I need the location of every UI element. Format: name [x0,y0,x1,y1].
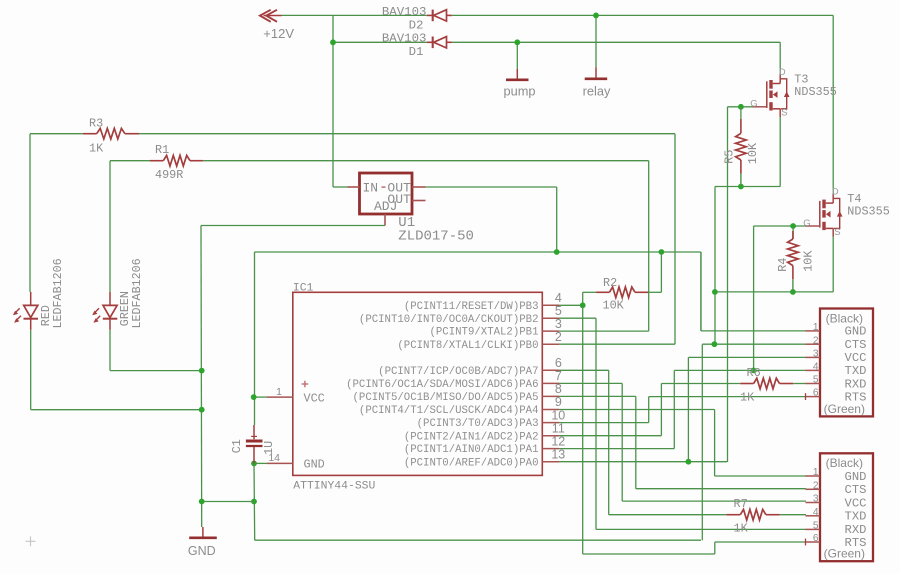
LED RED LEDFAB1206 [13,258,65,330]
svg-text:ADJ: ADJ [374,199,397,214]
wire T4 gate column down [753,226,755,370]
wire +12V branch down to U1 IN [332,15,334,187]
net symbol pump [503,69,535,98]
svg-text:6: 6 [813,388,819,399]
wire PA2 column up to R6 row [660,384,662,436]
node GND column / LED green row [199,368,205,374]
svg-text:6: 6 [813,533,819,544]
svg-text:IN: IN [363,180,379,195]
node PA0 row / conn1 VCC column [686,459,692,465]
wire PA1 column up to TXD1 row [673,370,675,448]
wire pin3 column (R1 net) [648,161,650,331]
wire VCC rail corner down [700,252,702,331]
node VCC column / pin1 [251,394,257,400]
wire D1 row left [333,41,427,43]
svg-text:IC1: IC1 [293,283,314,295]
svg-text:5: 5 [813,521,819,532]
connector J1 FTDI (top) [806,309,874,417]
svg-text:6: 6 [555,356,562,370]
wire GND column upper [200,226,203,528]
svg-text:11: 11 [552,421,565,435]
wire pump branch [516,42,518,69]
svg-text:1K: 1K [89,142,104,156]
wire IC pin PB3 row [559,304,583,306]
wire PB3 reset column [582,305,584,554]
resistor R4 10K [776,226,815,292]
svg-text:NDS355: NDS355 [794,85,836,99]
svg-text:R1: R1 [155,143,169,157]
wire R7 feed row [609,514,727,516]
wire T4 drain vertical [832,15,834,193]
wire IC pin PA4 row [559,409,715,411]
svg-text:TXD: TXD [845,364,867,378]
node GND link row right [251,499,257,505]
wire IC pin PA3 row [559,422,649,424]
svg-text:8: 8 [555,382,562,396]
node PB3 / R2 / reset net [580,302,586,308]
wire R2 right link [648,291,661,293]
resistor R5 10K [722,107,760,187]
svg-text:1K: 1K [734,521,749,535]
wire T3 gate column down [727,107,729,462]
wire PA6 column [621,383,623,501]
wire C1 bottom to rail corner [253,463,256,540]
wire PA4 column down [714,410,716,477]
svg-text:CTS: CTS [845,338,867,352]
connector J2 FTDI (bottom) [806,453,874,561]
svg-text:G: G [750,99,757,110]
svg-text:(Green): (Green) [824,402,865,416]
wire reset jog up [714,542,716,554]
LED GREEN LEDFAB1206 [92,258,144,330]
svg-text:LEDFAB1206: LEDFAB1206 [130,258,144,328]
svg-text:5: 5 [813,375,819,386]
svg-text:NDS355: NDS355 [847,205,889,219]
svg-text:ZLD017-50: ZLD017-50 [398,229,474,245]
voltage regulator U1 ZLD017-50 [348,173,474,245]
wire conn1 VCC row [688,356,806,358]
svg-text:10K: 10K [746,142,760,164]
wire R6 feed row [661,383,740,385]
wire R2 right up to VCC rail [660,252,662,292]
wire GND bottom rail [255,539,701,541]
wire CTS1 row [702,343,806,345]
svg-text:(PCINT4/T1/SCL/USCK/ADC4)PA4: (PCINT4/T1/SCL/USCK/ADC4)PA4 [359,405,539,417]
svg-text:(Black): (Black) [826,456,863,470]
transistor T3 NDS355 (n-MOSFET) [750,67,837,118]
svg-text:GND: GND [188,544,216,558]
wire R1 left vertical [109,161,111,292]
wire T3 source row [715,186,780,188]
svg-text:ATTINY44-SSU: ATTINY44-SSU [293,481,375,493]
svg-text:4: 4 [555,291,562,305]
svg-text:1: 1 [813,467,819,478]
wire LED GREEN bottom row [110,370,202,372]
diode D1 BAV103 [382,32,452,59]
wire IC pin PA1 row [559,448,674,450]
node R5 bottom [738,184,744,190]
svg-text:S: S [834,227,840,238]
svg-text:(PCINT7/ICP/OC0B/ADC7)PA7: (PCINT7/ICP/OC0B/ADC7)PA7 [378,366,538,378]
wire T3 drain vertical [779,42,781,74]
node T3 gate / R5 [738,104,744,110]
wire LED RED bottom row [31,409,202,411]
wire PA3 jog column [648,397,650,423]
svg-text:(PCINT10/INT0/OC0A/CKOUT)PB2: (PCINT10/INT0/OC0A/CKOUT)PB2 [359,314,539,326]
svg-text:(PCINT2/AIN1/ADC2)PA2: (PCINT2/AIN1/ADC2)PA2 [404,431,539,443]
wire GND rail corner [700,252,702,331]
net symbol relay [583,68,611,99]
svg-text:(PCINT11/RESET/DW)PB3: (PCINT11/RESET/DW)PB3 [404,301,539,313]
resistor R3 1K [83,117,139,156]
wire IC pin PA2 row [559,435,661,437]
wire D1 row right [452,41,780,43]
node T4 gate / R4 [790,223,796,229]
wire IC pin PA5 row [559,395,636,397]
wire R2 left link [583,291,596,293]
node pump junction [514,39,520,45]
wire U1 OUT down to VCC rail [556,187,558,252]
svg-text:BAV103: BAV103 [382,5,427,19]
svg-text:9: 9 [555,395,562,409]
node VCC rail / R2 [659,249,665,255]
svg-text:relay: relay [583,83,611,98]
svg-text:1: 1 [813,322,819,333]
svg-text:3: 3 [813,494,819,505]
svg-text:pump: pump [503,83,535,98]
wire IC pin PA6 row [559,382,622,384]
svg-text:(PCINT1/AIN0/ADC1)PA1: (PCINT1/AIN0/ADC1)PA1 [404,444,539,456]
wire IC pin1 VCC link [254,396,267,398]
wire IC pin PB2 row [559,317,596,319]
svg-text:VCC: VCC [304,391,325,405]
wire conn2 VCC row [622,500,806,502]
svg-text:+12V: +12V [263,26,294,41]
wire IC pin PB1 row [559,330,649,332]
node TXD1 row / T4 gate [751,368,757,374]
wire IC pin PA7 row [559,369,609,371]
svg-text:(PCINT8/XTAL1/CLKI)PB0: (PCINT8/XTAL1/CLKI)PB0 [397,340,538,352]
svg-text:(PCINT3/T0/ADC3)PA3: (PCINT3/T0/ADC3)PA3 [417,418,539,430]
supply symbol +12V [260,10,294,41]
wire T3 source column down [714,187,716,345]
svg-text:RXD: RXD [845,377,867,391]
wire conn1 VCC column [687,357,689,461]
svg-text:R6: R6 [747,366,761,380]
wire R1 row to pin3 column [203,160,648,162]
resistor R2 10K [596,276,648,313]
wire PA7 column [608,370,610,514]
wire +12V top rail left [282,14,427,16]
svg-text:S: S [781,107,787,118]
svg-text:G: G [803,218,810,229]
wire LED RED bottom vertical [30,330,32,410]
wire T4 gate row [754,225,806,227]
svg-text:TXD: TXD [845,510,867,524]
wire R7 to conn2 TXD [780,514,806,516]
svg-text:10K: 10K [603,299,625,313]
wire R2 left down to pin4 node [582,292,584,305]
node VCC rail / U1 OUT [554,249,560,255]
svg-text:10: 10 [551,408,565,422]
wire conn2 RXD row [596,528,806,530]
wire PA5 column [635,396,637,488]
node CTS1 / source column [712,341,718,347]
transistor T4 NDS355 (n-MOSFET) [803,187,890,238]
svg-text:R4: R4 [776,258,790,272]
svg-text:(Black): (Black) [826,311,863,325]
wire source row [715,291,833,293]
svg-text:(Green): (Green) [824,547,865,561]
node D1 row left junction [330,39,336,45]
wire R6 to conn1 RXD [793,383,806,385]
wire conn1 GND row [701,330,806,332]
svg-text:D2: D2 [409,18,424,32]
node source column / R4 row [712,289,718,295]
wire IC pin14 GND link [254,462,267,464]
wire U1 ADJ row (GND) [201,225,385,227]
svg-text:D: D [832,187,839,198]
svg-text:GND: GND [845,470,867,484]
svg-text:VCC: VCC [845,496,867,510]
svg-text:5: 5 [555,304,562,318]
wire conn2 CTS row [636,488,806,490]
wire LED GREEN bottom vertical [109,330,111,371]
svg-text:(PCINT0/AREF/ADC0)PA0: (PCINT0/AREF/ADC0)PA0 [404,457,539,469]
wire TXD1 row [674,369,806,371]
wire IC pin PA0 row [559,461,727,463]
svg-text:GND: GND [304,458,325,472]
node relay junction [593,13,599,19]
wire R3 row to pin2 column [139,133,675,135]
diode D2 BAV103 [382,5,452,32]
wire relay branch [595,15,597,67]
node C1 bottom / pin14 [251,461,257,467]
svg-text:D1: D1 [409,45,424,59]
wire U1 OUT row [426,186,557,188]
svg-text:7: 7 [555,369,562,383]
capacitor C1 1U [230,425,276,463]
wire T3 gate row [728,106,753,108]
svg-text:GND: GND [845,325,867,339]
svg-text:1K: 1K [740,390,755,404]
resistor R1 499R [150,143,203,182]
wire conn2 RTS row [715,541,806,543]
svg-text:R3: R3 [89,117,103,131]
wire pin2 column (R3 net) [674,134,676,345]
node R4 bottom [790,289,796,295]
svg-text:1: 1 [276,386,282,398]
svg-text:2: 2 [813,335,819,346]
origin cross marker [26,536,36,546]
svg-text:13: 13 [551,447,565,461]
svg-text:3: 3 [555,317,562,331]
IC IC1 ATTINY44-SSU [267,283,565,493]
wire RTS1 row [649,396,806,398]
wire reset bottom row [583,553,715,555]
node GND link row left [199,499,205,505]
svg-text:C1: C1 [230,439,244,453]
resistor R6 1K [740,366,793,404]
wire R3 left vertical [29,134,31,292]
wire PB2 column [595,318,597,529]
svg-text:4: 4 [813,507,819,518]
wire R3 row left [30,133,83,135]
wire R1 row left [110,160,150,162]
svg-text:R2: R2 [603,276,617,290]
wire IC pin PB0 row [559,343,675,345]
svg-text:LEDFAB1206: LEDFAB1206 [51,258,65,328]
node GND column / LED red row [199,407,205,413]
wire GND link row [202,501,254,503]
svg-text:(PCINT6/OC1A/SDA/MOSI/ADC6)PA6: (PCINT6/OC1A/SDA/MOSI/ADC6)PA6 [346,379,538,391]
svg-text:1U: 1U [262,441,276,455]
wire T3 source down [779,117,781,187]
svg-text:2: 2 [555,330,562,344]
svg-text:D: D [779,67,786,78]
wire conn2 GND row [715,475,806,477]
ground GND [188,527,217,558]
svg-text:VCC: VCC [845,351,867,365]
wire GND column (CTS1 to rail) [701,344,703,540]
svg-text:4: 4 [813,362,819,373]
svg-text:2: 2 [813,480,819,491]
wire +12V top rail right to T4 drain [452,14,833,16]
svg-text:CTS: CTS [845,483,867,497]
svg-text:(PCINT5/OC1B/MISO/DO/ADC5)PA5: (PCINT5/OC1B/MISO/DO/ADC5)PA5 [353,392,539,404]
svg-text:3: 3 [813,349,819,360]
resistor R7 1K [726,497,779,535]
wire VCC rail [255,251,701,253]
svg-text:R5: R5 [722,150,736,164]
svg-text:12: 12 [551,434,565,448]
svg-text:R7: R7 [734,497,748,511]
wire VCC column down to IC pin1/C1 [254,252,256,425]
svg-text:BAV103: BAV103 [382,32,427,46]
svg-text:10K: 10K [801,250,815,272]
svg-text:499R: 499R [155,168,183,182]
svg-text:(PCINT9/XTAL2)PB1: (PCINT9/XTAL2)PB1 [429,327,538,339]
wire T4 source down [832,237,834,292]
wire U1 IN [333,186,348,188]
